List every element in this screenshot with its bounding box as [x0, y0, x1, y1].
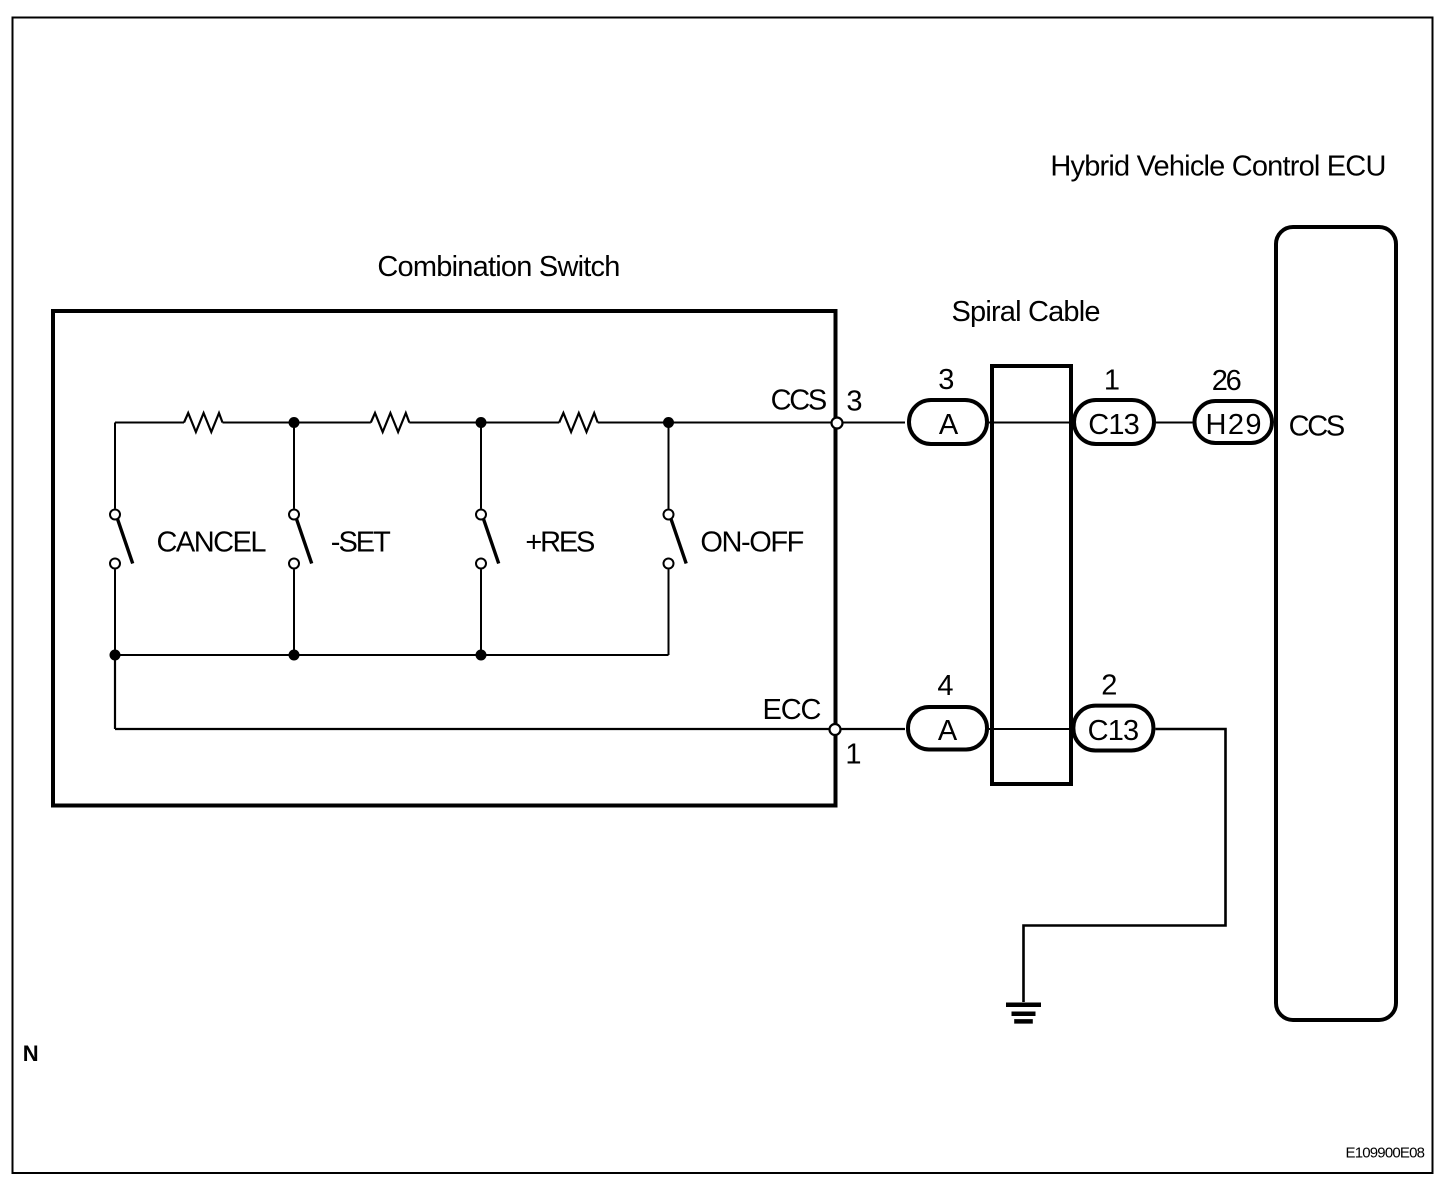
junction dot top +RES [476, 417, 487, 428]
combination switch box [53, 311, 836, 806]
svg-text:1: 1 [845, 739, 861, 771]
wire between A and C13 bottom [989, 728, 1071, 730]
svg-text:26: 26 [1212, 365, 1242, 397]
svg-text:CANCEL: CANCEL [157, 526, 267, 558]
svg-text:1: 1 [1104, 365, 1120, 397]
connector H29 pin 26 [1195, 365, 1273, 443]
svg-text:-SET: -SET [331, 526, 391, 558]
wire ECC run [115, 655, 905, 729]
svg-text:CCS: CCS [771, 384, 828, 416]
switch CANCEL [110, 423, 133, 656]
spiral cable box [992, 366, 1071, 784]
wire CCS bus top [115, 422, 905, 424]
svg-text:4: 4 [937, 670, 953, 702]
svg-text:ECC: ECC [763, 694, 822, 726]
svg-text:N: N [23, 1041, 39, 1066]
connector C13 pin 1 [1074, 365, 1154, 445]
node ECC [830, 724, 841, 735]
svg-text:+RES: +RES [525, 526, 595, 558]
resistor R1 [184, 413, 223, 432]
resistor R3 [559, 413, 598, 432]
connector A pin 4 [908, 670, 987, 750]
wire C13 to ground [1024, 729, 1226, 1002]
junction dot top ON-OFF [663, 417, 674, 428]
junction dot bottom -SET [289, 650, 300, 661]
svg-text:3: 3 [938, 364, 954, 396]
svg-text:Spiral Cable: Spiral Cable [952, 296, 1101, 328]
svg-text:E109900E08: E109900E08 [1346, 1145, 1426, 1162]
svg-text:A: A [939, 409, 959, 441]
ground symbol [1006, 1005, 1041, 1022]
node CCS [832, 418, 843, 429]
svg-text:2: 2 [1101, 670, 1117, 702]
svg-text:ON-OFF: ON-OFF [700, 526, 804, 558]
svg-text:3: 3 [846, 386, 862, 418]
svg-text:Combination Switch: Combination Switch [377, 251, 620, 283]
switch +RES [476, 423, 499, 656]
switch -SET [289, 423, 312, 656]
svg-text:H29: H29 [1206, 409, 1262, 441]
wire bus bottom [115, 654, 669, 656]
svg-text:C13: C13 [1088, 715, 1140, 747]
svg-text:CCS: CCS [1289, 411, 1346, 443]
junction dot bottom +RES [476, 650, 487, 661]
wire between C13 and H29 top [1156, 422, 1193, 424]
ECU box U1 [1276, 227, 1396, 1020]
wire between A and C13 top [989, 422, 1072, 424]
svg-text:Hybrid Vehicle Control ECU: Hybrid Vehicle Control ECU [1050, 151, 1386, 183]
junction dot top -SET [289, 417, 300, 428]
connector C13 pin 2 [1073, 670, 1153, 751]
junction dot bottom CANCEL [110, 650, 121, 661]
resistor R2 [371, 413, 410, 432]
switch ON-OFF [664, 423, 687, 656]
svg-text:A: A [938, 715, 958, 747]
connector A pin 3 [909, 364, 987, 444]
svg-text:C13: C13 [1088, 409, 1140, 441]
